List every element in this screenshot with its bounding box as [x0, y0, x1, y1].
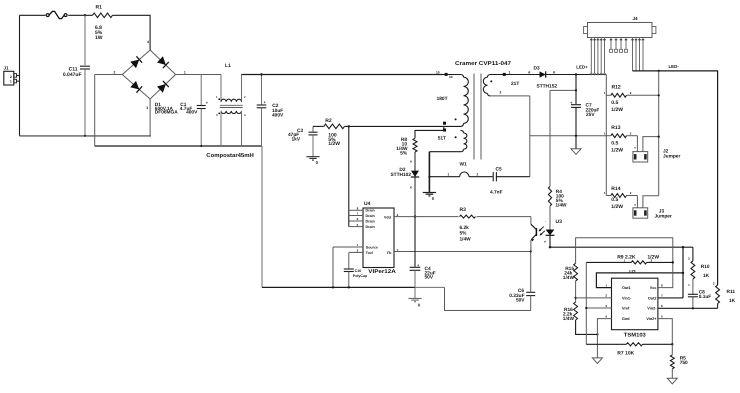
wire minus vertical: [94, 75, 96, 147]
resistor R13: [611, 134, 627, 138]
diode D1b top-right: [157, 56, 166, 65]
svg-text:C10: C10: [355, 269, 362, 273]
svg-text:R12: R12: [612, 85, 621, 91]
svg-text:LED-: LED-: [669, 64, 680, 69]
bridge rectifier D1 diamond: [122, 50, 175, 99]
J4 pin 9 open: [625, 38, 627, 50]
ground C7: [571, 149, 581, 155]
wire B 51T top: [415, 130, 444, 138]
J4 pin 4: [600, 38, 602, 74]
wire J1 pin2 stub: [17, 74, 20, 76]
fuse F1: [46, 14, 49, 17]
svg-text:R2: R2: [325, 118, 332, 124]
diode D1d bottom-right: [157, 84, 166, 93]
wire A primary bottom: [349, 125, 444, 127]
svg-text:U4: U4: [364, 201, 371, 207]
jumper J2: [636, 136, 638, 152]
svg-text:R13: R13: [611, 125, 620, 131]
wire Fb row: [394, 251, 531, 253]
J4 pin 3: [597, 38, 599, 74]
wire R15 top row: [576, 238, 673, 263]
svg-text:R7 10K: R7 10K: [617, 351, 634, 357]
node Vdd D2: [414, 215, 416, 217]
svg-text:Drain: Drain: [366, 209, 375, 213]
svg-text:J1: J1: [4, 66, 10, 71]
wire top rail: [20, 14, 46, 16]
svg-text:400V: 400V: [272, 113, 284, 119]
svg-text:4.7nF: 4.7nF: [490, 190, 503, 196]
svg-text:1/2W: 1/2W: [611, 107, 623, 113]
svg-text:51T: 51T: [438, 136, 446, 142]
svg-text:R1: R1: [96, 5, 103, 11]
node C11 bottom: [84, 135, 86, 137]
svg-text:Vref: Vref: [622, 307, 630, 311]
U4 drain pin 6: [349, 220, 363, 222]
pin link transformer: [443, 126, 445, 130]
wire drains bus: [348, 126, 350, 226]
svg-text:PolyCap: PolyCap: [353, 274, 368, 278]
resistor R11: [716, 285, 720, 304]
capacitor C8: [688, 293, 698, 295]
wire J1 pin1 stub: [17, 80, 20, 82]
capacitor C6: [530, 252, 532, 292]
svg-text:0.1uF: 0.1uF: [699, 294, 712, 300]
resistor R12: [611, 93, 627, 97]
ground U2: [592, 358, 602, 364]
diode D1c bottom-left: [130, 81, 139, 90]
connector J4: [588, 23, 653, 38]
svg-text:1K: 1K: [729, 298, 736, 304]
transformer secondary winding 21T: [488, 75, 491, 78]
node Fb emitter: [530, 250, 532, 252]
svg-text:10: 10: [436, 71, 440, 75]
svg-text:R14: R14: [611, 186, 620, 192]
transformer aux winding 51T: [461, 130, 464, 133]
svg-text:0.5: 0.5: [611, 100, 618, 106]
resistor R9: [586, 261, 631, 263]
ground 51T: [428, 152, 430, 193]
svg-text:1kV: 1kV: [292, 137, 301, 143]
wire fuse to R1: [68, 14, 92, 16]
transformer primary winding 180T: [461, 75, 464, 78]
J4 pin 12: [639, 38, 641, 71]
svg-text:21T: 21T: [511, 81, 519, 87]
svg-text:U3: U3: [556, 219, 563, 225]
svg-text:Vin2+: Vin2+: [646, 317, 657, 321]
svg-text:0.5: 0.5: [611, 197, 618, 203]
node U3 cathode: [549, 246, 551, 248]
svg-text:2: 2: [114, 70, 116, 74]
svg-text:1/2W: 1/2W: [328, 141, 340, 147]
svg-text:Drain: Drain: [366, 214, 375, 218]
svg-text:1K: 1K: [703, 273, 710, 279]
diode D2 STTH102: [411, 171, 419, 177]
capacitor C3: [312, 126, 314, 131]
svg-text:5%: 5%: [460, 231, 468, 237]
wire output return: [530, 135, 607, 137]
svg-text:1/4W: 1/4W: [555, 202, 567, 208]
svg-text:10: 10: [449, 75, 453, 79]
svg-text:Out1: Out1: [622, 286, 631, 290]
svg-text:C5: C5: [496, 167, 502, 173]
svg-text:R9 2.2K: R9 2.2K: [617, 254, 636, 260]
capacitor C5: [492, 172, 494, 181]
J4 pin 1: [590, 38, 592, 74]
svg-text:LED+: LED+: [576, 65, 588, 70]
wire pin2 Vin1-: [576, 297, 612, 299]
wire bridge bottom vertex: [149, 99, 151, 136]
svg-text:50V: 50V: [425, 275, 434, 281]
wire Source col: [332, 247, 334, 287]
resistor R5: [671, 344, 673, 355]
wire left vertical: [19, 15, 21, 136]
svg-text:Jumper: Jumper: [655, 214, 672, 220]
wire pin5 Vin2+: [658, 319, 672, 345]
J4 pin 10: [632, 38, 634, 71]
wire pin6 rail: [658, 307, 718, 309]
wire R1 to bridge: [113, 15, 151, 50]
svg-text:R11: R11: [727, 289, 736, 295]
svg-text:25V: 25V: [586, 112, 595, 118]
J4 pin 11: [635, 38, 637, 71]
capacitor C2: [261, 75, 263, 105]
J4 pin 6 open: [610, 38, 612, 50]
J4 pin 7 open: [615, 38, 617, 50]
wire pin8 Vcc: [658, 262, 673, 287]
node R2 out: [348, 125, 350, 127]
wire pin1 Out1 loop: [596, 273, 683, 288]
J4 pin 8 open: [620, 38, 622, 50]
capacitor C10: [348, 252, 350, 268]
svg-text:Tovl: Tovl: [366, 251, 373, 255]
svg-text:R10: R10: [701, 264, 710, 270]
svg-text:2: 2: [500, 91, 502, 95]
svg-text:4: 4: [147, 40, 149, 44]
jumper J3: [636, 196, 638, 208]
node C7 top: [575, 73, 577, 75]
svg-text:n: n: [634, 202, 636, 206]
svg-text:1W: 1W: [95, 35, 103, 41]
node junction C11 top: [84, 14, 86, 16]
svg-text:5%: 5%: [400, 151, 408, 157]
svg-text:400V: 400V: [186, 110, 198, 116]
node divider: [575, 297, 577, 299]
J4 pin 13: [642, 38, 644, 71]
svg-text:Compostar45mH: Compostar45mH: [206, 153, 254, 159]
resistor R10: [692, 247, 694, 261]
wire return to C6: [445, 287, 531, 310]
svg-text:180T: 180T: [437, 96, 448, 102]
svg-text:1/2W: 1/2W: [611, 204, 623, 210]
svg-text:0.5: 0.5: [611, 141, 618, 147]
ground C3: [306, 156, 319, 158]
capacitor C4: [414, 217, 416, 267]
capacitor C1: [200, 75, 202, 105]
resistor R7: [586, 343, 626, 345]
wire minus rail: [95, 145, 262, 147]
U4 drain pin 8: [349, 209, 363, 211]
svg-text:n: n: [634, 145, 636, 149]
svg-text:0.047uF: 0.047uF: [63, 72, 82, 78]
svg-text:2: 2: [477, 172, 479, 176]
wire R4 top: [550, 89, 576, 91]
wire secondary bottom pin2: [491, 95, 530, 97]
svg-text:TSM103: TSM103: [624, 333, 646, 339]
resistor R4: [549, 90, 551, 186]
svg-text:Drain: Drain: [366, 225, 375, 229]
wire D2 to Vdd rail: [414, 177, 416, 216]
inductor L1 common-mode choke: [220, 75, 222, 102]
wire R16 bottom: [576, 320, 598, 334]
svg-text:Source: Source: [366, 246, 378, 250]
svg-text:R3: R3: [460, 207, 467, 213]
svg-text:1/4W: 1/4W: [460, 236, 472, 242]
svg-text:1: 1: [448, 173, 450, 177]
svg-text:Vcc: Vcc: [650, 286, 657, 290]
resistor R1: [93, 13, 113, 18]
wire bridge left vertex: [95, 74, 123, 76]
svg-text:STTH102: STTH102: [390, 172, 411, 178]
svg-text:L1: L1: [225, 63, 231, 69]
svg-text:1: 1: [509, 70, 511, 74]
resistor R8: [413, 138, 417, 152]
wire secondary top: [491, 74, 540, 76]
wire return vertical: [261, 146, 263, 287]
svg-text:6.2k: 6.2k: [460, 225, 470, 231]
capacitor C11: [84, 15, 86, 65]
optocoupler U3 phototransistor: [530, 217, 532, 225]
resistor R15: [574, 263, 578, 281]
svg-text:Drain: Drain: [366, 219, 375, 223]
svg-text:1/4W: 1/4W: [563, 316, 575, 322]
wire Vcc vertical: [682, 247, 684, 298]
U4 drain pin 7: [349, 215, 363, 217]
svg-text:Vin1-: Vin1-: [622, 296, 632, 300]
node main rail C2: [260, 73, 262, 75]
U4 pin1 Source: [333, 246, 363, 248]
svg-text:1/2W: 1/2W: [647, 255, 659, 261]
svg-text:J4: J4: [633, 16, 639, 21]
svg-text:DF06MGA: DF06MGA: [155, 110, 178, 116]
node W1 gnd: [428, 176, 430, 178]
U4 pin2 Tovl: [349, 251, 363, 253]
wire pin7 Out2: [658, 297, 683, 299]
svg-text:D3: D3: [534, 66, 540, 72]
wire J2 J3 bus: [658, 71, 660, 196]
svg-text:1: 1: [184, 70, 186, 74]
svg-text:Vin2-: Vin2-: [647, 307, 657, 311]
resistor R2: [313, 125, 324, 127]
svg-text:1/2W: 1/2W: [611, 148, 623, 154]
wire pin4 Gnd: [597, 319, 611, 358]
wire LED- bus: [633, 71, 718, 285]
diode D1a top-left: [130, 60, 139, 69]
optocoupler U3 LED: [546, 230, 555, 236]
ground C4: [408, 297, 421, 299]
wire Vref vertical: [585, 262, 587, 344]
transformer core: [473, 74, 475, 160]
wire U3 row: [550, 246, 693, 248]
svg-text:Out2: Out2: [648, 296, 657, 300]
svg-text:2: 2: [10, 75, 12, 79]
U3 light arrows: [539, 227, 544, 231]
IC U4 VIPer12A: [363, 208, 394, 268]
svg-text:Jumper: Jumper: [663, 153, 680, 159]
diode D3 STTH152: [540, 71, 546, 77]
svg-text:-: -: [545, 219, 546, 223]
wire LED+ to R bus: [605, 75, 607, 196]
J4 pin 2: [594, 38, 596, 74]
connector J1: [4, 71, 14, 85]
svg-text:Cramer CVP11-047: Cramer CVP11-047: [455, 61, 511, 67]
capacitor C7: [575, 75, 577, 105]
svg-text:50V: 50V: [516, 297, 525, 303]
svg-text:1/4W: 1/4W: [563, 275, 575, 281]
wire R8 to D2: [414, 152, 416, 171]
wire pin3 Vref: [586, 307, 611, 309]
wire LED+ bus: [546, 74, 606, 76]
svg-text:n: n: [544, 239, 546, 243]
svg-text:W1: W1: [460, 161, 468, 167]
wire main rail to transformer: [242, 74, 444, 76]
svg-text:3: 3: [146, 106, 148, 110]
svg-text:750: 750: [680, 360, 688, 366]
resistor R3: [460, 215, 476, 218]
svg-text:Gnd: Gnd: [622, 317, 630, 321]
wire bridge right vertex to rail: [176, 74, 221, 76]
svg-text:VIPer12A: VIPer12A: [368, 269, 396, 275]
wire primary bottom rail: [262, 286, 415, 288]
svg-text:Vdd: Vdd: [384, 215, 391, 219]
svg-text:1: 1: [10, 80, 12, 84]
ground R5: [667, 378, 677, 384]
node C1 bottom: [200, 145, 202, 147]
U4 drain pin 5: [349, 226, 363, 228]
node C7 return: [575, 135, 577, 137]
resistor R14: [611, 194, 627, 198]
svg-text:STTH152: STTH152: [537, 84, 558, 90]
J4 pin 5: [604, 38, 606, 74]
IC U2 TSM103: [612, 278, 658, 330]
wire bottom rail J1: [20, 135, 152, 137]
aux winding W1: [429, 176, 459, 178]
resistor R16: [574, 302, 578, 320]
